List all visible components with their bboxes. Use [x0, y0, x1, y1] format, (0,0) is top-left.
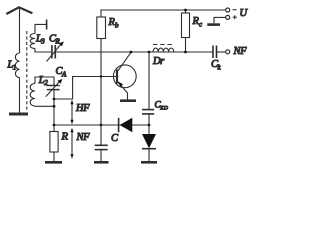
wire top rail: [101, 10, 226, 17]
svg-text:NF: NF: [233, 46, 248, 57]
open plate at L3 top: [46, 20, 48, 30]
node: CKD bottom junction: [148, 124, 151, 127]
wire CA bottom down to lower line: [53, 90, 55, 125]
ground (under diode D2): [141, 161, 157, 164]
wire CA line to R: [53, 125, 55, 132]
chassis bar (+ terminal): [207, 23, 220, 26]
ground (antenna circuit): [9, 113, 28, 116]
node: base tap junction: [53, 98, 56, 101]
node: R branch: [53, 124, 56, 127]
wire CKD branch: [148, 52, 150, 109]
wire C to ground: [100, 150, 102, 161]
ground (emitter): [120, 99, 136, 102]
ground (under R): [45, 161, 62, 164]
node: base junction: [100, 75, 102, 77]
svg-text:R: R: [61, 132, 69, 143]
capacitor CA (variable, tank): [46, 66, 67, 97]
node: bypass C junction: [100, 124, 103, 127]
svg-text:A: A: [61, 71, 67, 79]
wire: feedback line CR to Ck: [55, 51, 213, 53]
svg-text:c: c: [199, 21, 203, 29]
arrow HF (measurement): [70, 100, 90, 125]
arrow NF (measurement): [70, 128, 90, 159]
wire L3 bottom: [35, 49, 51, 53]
inductor L3: [30, 34, 45, 49]
resistor R: [50, 132, 69, 153]
diode D2 (shunt, pointing down): [142, 125, 156, 161]
wire CKD to lower line: [148, 114, 150, 125]
wire Rb down to lower line: [100, 39, 102, 126]
svg-text:HF: HF: [75, 103, 90, 114]
node: Rc output junction: [184, 51, 187, 54]
node: L2 bottom junction: [53, 105, 56, 108]
wire L2 bottom: [35, 105, 54, 107]
coupling core (dashed): [26, 31, 28, 111]
inductor L1: [7, 53, 20, 78]
wire Rc bottom: [185, 38, 187, 53]
terminal -U: [226, 8, 230, 12]
wire: lower line: [54, 124, 149, 126]
svg-text:C: C: [111, 133, 119, 144]
svg-text:b: b: [115, 22, 119, 30]
capacitor Ck (coupling): [211, 46, 222, 72]
transistor T1 (PNP): [113, 52, 136, 100]
node: collector junction: [130, 51, 133, 54]
terminal +: [226, 15, 230, 19]
wire + to chassis: [214, 17, 226, 23]
diode D1 (series, pointing left): [119, 118, 133, 132]
wire: base tap to base line: [54, 77, 117, 100]
resistor Rb: [97, 17, 119, 39]
svg-text:R: R: [55, 38, 61, 46]
wire L1 to ground: [19, 78, 21, 113]
choke Dr: [152, 45, 174, 68]
svg-text:3: 3: [40, 38, 45, 46]
svg-text:k: k: [218, 64, 222, 72]
wire R to ground: [53, 152, 55, 161]
terminal NF: [226, 50, 230, 54]
svg-text:Dr: Dr: [152, 56, 165, 67]
node: Rc top rail: [184, 9, 187, 12]
wire L2 top to CA: [35, 77, 54, 86]
wire Rc top: [185, 10, 187, 13]
svg-text:U: U: [240, 8, 249, 19]
capacitor C (bypass): [95, 133, 119, 150]
inductor L2: [30, 75, 48, 106]
capacitor CKD: [142, 100, 168, 114]
svg-text:NF: NF: [76, 132, 91, 143]
wire Ck to NF terminal: [217, 51, 226, 53]
svg-text:1: 1: [13, 64, 16, 72]
svg-text:KD: KD: [159, 106, 168, 112]
wire L3 top to plate: [35, 24, 46, 33]
node: CKD branch top: [148, 51, 151, 54]
antenna: [6, 7, 32, 53]
ground (under C): [94, 161, 109, 164]
wire C branch: [100, 125, 102, 145]
resistor Rc: [182, 13, 204, 38]
capacitor CR (variable, series): [47, 34, 64, 62]
